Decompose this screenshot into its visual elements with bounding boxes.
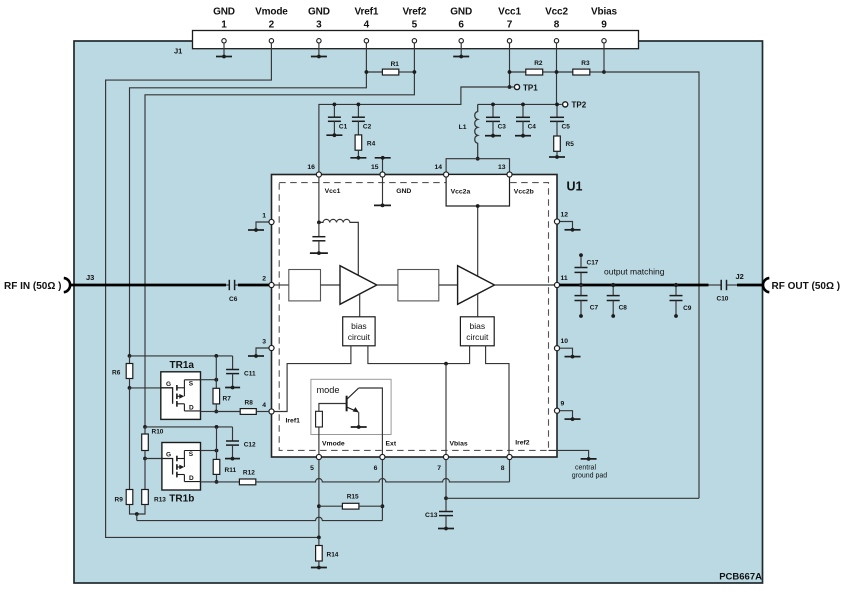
test point TP1	[510, 86, 514, 88]
svg-text:C4: C4	[528, 124, 537, 131]
resistor R7	[215, 380, 217, 389]
wire TR1b drain lead	[201, 481, 217, 483]
connector J1 body	[193, 31, 639, 49]
J1 pin 7	[507, 39, 511, 43]
svg-text:10: 10	[561, 338, 569, 345]
ground at J1 GND pin	[460, 43, 462, 57]
capacitor C5	[556, 104, 558, 117]
svg-text:8: 8	[554, 20, 560, 31]
J1 pin 5	[412, 39, 416, 43]
transistor TR1a	[161, 372, 201, 420]
J1 pin 9	[602, 39, 606, 43]
J1 pin 1	[222, 39, 226, 43]
capacitor C11	[232, 356, 234, 370]
wire TR1a source lead	[201, 379, 217, 381]
wire RF to U1 pin2	[238, 284, 269, 287]
ground stub U1 pin9	[560, 411, 573, 419]
svg-text:7: 7	[437, 465, 441, 472]
svg-text:C1: C1	[339, 124, 348, 131]
op-amp IC U1 body	[272, 175, 558, 458]
svg-text:D: D	[189, 404, 194, 411]
J1 pin 8	[554, 39, 558, 43]
wire Vref2 from J1 pin5 down left side	[145, 43, 414, 427]
node C3	[491, 103, 495, 107]
svg-text:R12: R12	[243, 470, 255, 477]
wire rail A Vref1 to C11	[130, 355, 233, 357]
svg-text:R5: R5	[566, 141, 575, 148]
node rail B / R11	[215, 425, 219, 429]
svg-text:RF IN (50Ω ): RF IN (50Ω )	[4, 281, 61, 292]
node TR1a gate	[128, 386, 132, 390]
svg-text:C5: C5	[562, 124, 571, 131]
svg-text:9: 9	[601, 20, 607, 31]
svg-text:C2: C2	[363, 124, 372, 131]
svg-text:circuit: circuit	[466, 332, 489, 342]
svg-text:C6: C6	[229, 296, 238, 303]
capacitor C7	[580, 285, 582, 296]
resistor R5	[554, 136, 561, 151]
wire U1 pin16 Vcc1 internal	[318, 177, 320, 222]
J1 pin 6	[459, 39, 463, 43]
svg-text:TP2: TP2	[572, 101, 587, 110]
svg-text:S: S	[189, 451, 194, 458]
internal decoupling capacitor	[318, 222, 320, 236]
svg-text:R3: R3	[581, 60, 590, 67]
svg-text:GND: GND	[308, 6, 330, 17]
svg-text:12: 12	[561, 212, 569, 219]
node Vbias internal	[444, 362, 448, 366]
transistor TR1b	[162, 443, 201, 491]
wire Vmode pin5 internal	[318, 427, 320, 460]
resistor R11	[216, 451, 218, 460]
ground stub above U1 pin15	[382, 158, 384, 172]
node Vref2 rail B	[143, 425, 147, 429]
wire amp2 to bias circuit 2	[477, 294, 479, 317]
interstage matching block	[398, 270, 439, 301]
ground stub U1 pin10	[560, 348, 573, 356]
PCB board PCB667A outline	[74, 41, 763, 583]
node C4	[521, 103, 525, 107]
resistor R14	[318, 537, 320, 545]
bias circuit 1 block	[343, 317, 375, 346]
capacitor C17	[580, 272, 582, 285]
svg-text:R7: R7	[223, 395, 232, 402]
svg-text:D: D	[189, 475, 194, 482]
capacitor C12	[232, 427, 234, 441]
svg-text:R15: R15	[347, 493, 359, 500]
svg-text:5: 5	[310, 465, 314, 472]
transistor Q mode NPN	[346, 396, 348, 412]
J1 pin 3	[317, 39, 321, 43]
wire Vcc2 from J1 pin8	[556, 43, 558, 104]
bias circuit 2 block	[460, 317, 494, 346]
resistor R6	[129, 356, 131, 364]
resistor R8	[216, 411, 240, 413]
wire Vref2 column down to R13	[144, 459, 146, 490]
capacitor C3	[492, 104, 494, 117]
mode block outline	[311, 379, 391, 434]
node L1 feed to pins 14 13	[476, 157, 480, 161]
wire amp1 to bias circuit 1	[359, 294, 361, 317]
wire pin5 column	[318, 460, 320, 538]
node TP1/Vcc1	[508, 85, 512, 89]
resistor R9	[126, 490, 133, 505]
internal inductor on Vcc1	[319, 219, 358, 275]
wire Vmode from J1 pin2 down left side	[106, 43, 319, 537]
svg-text:Vcc2: Vcc2	[545, 6, 568, 17]
node TR1a source	[214, 378, 218, 382]
wire Ext line to pin6 column	[136, 514, 138, 521]
resistor R1	[366, 71, 382, 73]
node Vref2/R1	[413, 70, 417, 74]
node Vcc1/R2	[508, 70, 512, 74]
svg-text:bias: bias	[351, 321, 367, 331]
svg-text:R8: R8	[245, 399, 254, 406]
svg-text:4: 4	[364, 20, 370, 31]
svg-text:U1: U1	[567, 180, 583, 194]
node C5/Vcc2	[555, 103, 559, 107]
svg-text:9: 9	[561, 401, 565, 408]
svg-text:C11: C11	[244, 370, 256, 377]
node output/C17/C7	[579, 283, 583, 287]
svg-text:C8: C8	[619, 305, 628, 312]
svg-text:L1: L1	[459, 124, 467, 131]
wire matching to amp1	[321, 284, 341, 286]
wire Iref1 from bias1 to pin4	[274, 346, 351, 412]
node Vcc1 internal	[317, 221, 321, 225]
node TR1a drain	[214, 410, 218, 414]
svg-text:Vbias: Vbias	[591, 6, 618, 17]
wire pin6 column	[381, 460, 383, 506]
wire amp2 to pin11	[495, 284, 555, 286]
svg-text:R14: R14	[327, 551, 339, 558]
wire pin2 to input matching	[274, 284, 289, 286]
svg-text:Iref1: Iref1	[286, 418, 301, 425]
capacitor C4	[522, 104, 524, 117]
ground at J1 GND pin	[223, 43, 225, 57]
node C1	[333, 103, 337, 107]
svg-text:GND: GND	[450, 6, 472, 17]
wire Vbias from J1 pin9	[603, 43, 605, 72]
node R9/R13	[135, 512, 139, 516]
wire amp1 to interstage block	[377, 284, 398, 286]
resistor R3	[557, 71, 573, 73]
svg-text:C9: C9	[683, 305, 692, 312]
svg-text:G: G	[166, 381, 171, 388]
svg-text:J1: J1	[174, 47, 182, 56]
svg-text:6: 6	[374, 465, 378, 472]
svg-text:Vcc1: Vcc1	[325, 188, 341, 195]
svg-text:C7: C7	[590, 305, 599, 312]
wire Iref2 from bias2 to pin8	[486, 346, 509, 455]
wire Vbias to right side	[604, 72, 699, 498]
wire Vcc2 block to amp2	[477, 206, 479, 276]
ground stub U1 pin12	[560, 222, 573, 230]
wire Iref2 bus pin8 to R12	[256, 479, 510, 482]
wire TR1a gate row	[130, 387, 161, 389]
capacitor C9	[675, 285, 677, 296]
svg-text:S: S	[189, 381, 194, 388]
wire rail B Vref2 to C12	[145, 426, 233, 428]
input matching block	[289, 270, 321, 301]
svg-text:R11: R11	[225, 467, 237, 474]
capacitor C10	[709, 284, 722, 286]
svg-text:GND: GND	[396, 188, 411, 195]
node pin5/R15	[317, 504, 321, 508]
svg-text:Vcc2b: Vcc2b	[514, 189, 534, 196]
svg-text:Vmode: Vmode	[322, 440, 345, 447]
svg-text:8: 8	[501, 465, 505, 472]
wire loop feeding U1 pins 14 and 13	[446, 159, 509, 172]
node TR1b source	[215, 449, 219, 453]
svg-text:14: 14	[435, 164, 443, 171]
wire Vbias rail to pin7	[445, 364, 447, 455]
capacitor C13	[445, 498, 447, 511]
U1 Vcc2a/Vcc2b internal block	[446, 175, 509, 207]
capacitor C8	[612, 285, 614, 296]
J1 pin 2	[269, 39, 273, 43]
wire collector to pin6 Ext	[359, 388, 383, 460]
svg-text:Ext: Ext	[386, 440, 397, 447]
node Vmode/R14	[317, 536, 321, 540]
svg-text:GND: GND	[213, 6, 235, 17]
svg-text:15: 15	[371, 164, 379, 171]
ground stub U1 pin3	[256, 348, 269, 356]
svg-text:PCB667A: PCB667A	[719, 572, 762, 583]
svg-text:J2: J2	[736, 272, 744, 281]
wire Vcc1 to U1 pin16	[319, 87, 510, 172]
svg-text:Vref2: Vref2	[403, 6, 427, 17]
connector J2 RF OUT	[763, 278, 769, 292]
svg-text:R10: R10	[152, 429, 164, 436]
wire Vbias bottom run	[446, 497, 699, 499]
svg-text:7: 7	[507, 20, 513, 31]
node TR1b drain	[215, 480, 219, 484]
node rail A / R7	[214, 354, 218, 358]
wire RF out to J2	[737, 284, 763, 287]
wire RF output trace from pin11	[560, 284, 709, 287]
svg-text:1: 1	[262, 213, 266, 220]
inductor L1	[475, 104, 478, 158]
wire Vref1 column down to R9	[129, 388, 131, 490]
svg-text:TR1a: TR1a	[170, 360, 195, 371]
svg-text:RF OUT (50Ω ): RF OUT (50Ω )	[772, 281, 841, 292]
wire Vcc2 rail	[478, 103, 562, 105]
svg-text:R9: R9	[115, 497, 124, 504]
node output/C8	[611, 283, 615, 287]
central ground pad wire	[549, 450, 589, 459]
wire pin7 column	[445, 460, 447, 499]
svg-text:R13: R13	[154, 497, 166, 504]
svg-text:5: 5	[412, 20, 418, 31]
svg-text:R2: R2	[534, 60, 543, 67]
svg-text:C17: C17	[587, 260, 599, 267]
wire TR1b source lead	[201, 450, 217, 452]
ground stub U1 pin1	[256, 222, 269, 230]
svg-text:Iref2: Iref2	[515, 440, 530, 447]
node Vref1/R1	[365, 70, 369, 74]
svg-text:mode: mode	[317, 385, 340, 395]
svg-text:C10: C10	[717, 295, 729, 302]
svg-text:2: 2	[262, 276, 266, 283]
svg-text:13: 13	[498, 164, 506, 171]
ground U1 pin15 internal	[382, 177, 384, 205]
wire rail A to source	[215, 356, 217, 380]
svg-text:3: 3	[262, 339, 266, 346]
wire resistor to transistor base	[319, 404, 347, 412]
resistor R10	[144, 427, 146, 434]
svg-text:central: central	[575, 464, 596, 471]
resistor R12	[217, 481, 240, 483]
svg-text:Vcc1: Vcc1	[498, 6, 521, 17]
node TR1b gate	[143, 457, 147, 461]
resistor R13	[142, 490, 149, 505]
node output/C9	[674, 283, 678, 287]
svg-text:2: 2	[269, 20, 275, 31]
mode block resistor	[316, 411, 323, 427]
svg-text:bias: bias	[470, 321, 486, 331]
resistor R4	[355, 135, 362, 150]
capacitor C2	[357, 104, 359, 117]
svg-text:11: 11	[561, 275, 568, 282]
amplifier stage 1	[340, 266, 377, 305]
svg-text:Vref1: Vref1	[355, 6, 379, 17]
J1 pin 4	[364, 39, 368, 43]
svg-text:TR1b: TR1b	[169, 494, 194, 505]
node Vref1 rail A	[128, 354, 132, 358]
ground at J1 GND pin	[318, 43, 320, 57]
wire emitter to ground	[358, 412, 360, 427]
svg-text:R4: R4	[367, 141, 376, 148]
svg-text:6: 6	[458, 20, 464, 31]
svg-text:1: 1	[221, 20, 227, 31]
wire Vref1 from J1 pin4 down left side	[130, 43, 367, 356]
svg-text:4: 4	[262, 402, 266, 409]
wire RF input trace	[70, 284, 227, 287]
svg-text:R6: R6	[112, 369, 121, 376]
node pin7/C13	[444, 496, 448, 500]
node pin6/R15	[381, 504, 385, 508]
svg-text:output matching: output matching	[604, 266, 665, 276]
svg-text:C3: C3	[498, 124, 507, 131]
svg-text:J3: J3	[86, 273, 94, 282]
U1 inner dashed boundary	[279, 183, 548, 451]
wire TR1a drain lead	[201, 411, 217, 413]
capacitor C1	[333, 104, 335, 117]
wire interstage to amp2	[439, 284, 458, 286]
capacitor C6	[226, 284, 229, 286]
wire R9 R13 join	[130, 505, 146, 515]
svg-text:C13: C13	[425, 512, 438, 519]
wire Vcc1 from J1 pin7	[509, 43, 511, 87]
wire bias1 to bias2 Vbias rail	[368, 346, 470, 364]
node Vcc2/R2/R3	[555, 70, 559, 74]
node Vcc2 block output	[476, 204, 480, 208]
svg-text:Vcc2a: Vcc2a	[451, 189, 471, 196]
svg-text:ground pad: ground pad	[572, 473, 608, 480]
svg-text:3: 3	[316, 20, 322, 31]
svg-text:Vmode: Vmode	[255, 6, 288, 17]
svg-text:16: 16	[307, 164, 315, 171]
resistor R15	[319, 505, 343, 507]
svg-text:TP1: TP1	[523, 83, 538, 92]
node Vbias/R3	[602, 70, 606, 74]
svg-text:circuit: circuit	[348, 332, 371, 342]
svg-text:G: G	[166, 452, 171, 459]
wire rail B to source	[216, 427, 218, 451]
connector J3 RF IN	[64, 278, 70, 292]
svg-text:C12: C12	[244, 441, 256, 448]
amplifier stage 2	[458, 266, 495, 305]
resistor R2	[510, 71, 526, 73]
svg-text:R1: R1	[391, 61, 400, 68]
test point TP2	[563, 102, 568, 107]
svg-text:Vbias: Vbias	[450, 440, 468, 447]
node C2	[357, 103, 361, 107]
wire TR1b gate row	[145, 458, 162, 460]
